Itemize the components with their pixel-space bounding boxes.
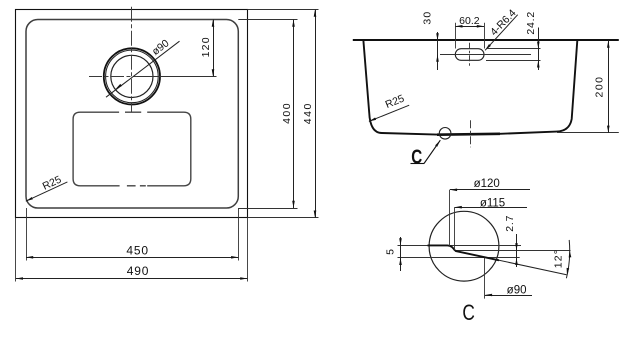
extension lines for 400 dimension	[238, 19, 297, 21]
lower depth reference line (detail)	[398, 257, 520, 259]
overflow slot vertical centerline	[469, 43, 471, 67]
dimension 490 line	[16, 278, 248, 280]
dimension 450 line	[26, 257, 238, 259]
svg-text:490: 490	[127, 264, 149, 278]
drain chamfer slant thick segment (detail)	[455, 251, 499, 260]
D120 edge line (detail)	[449, 190, 451, 247]
sink outer rim square 490x440 (plan view)	[16, 10, 248, 218]
svg-text:C: C	[411, 147, 422, 169]
dimension 200 line	[608, 41, 610, 133]
leader line for R25 corner radius (plan view)	[26, 182, 68, 201]
svg-text:2.7: 2.7	[504, 215, 516, 232]
detail C boundary circle	[429, 211, 499, 281]
extension lines for 440 dimension	[247, 9, 318, 11]
svg-text:120: 120	[200, 36, 212, 57]
svg-text:30: 30	[422, 11, 434, 25]
drain flange circle D120 (plan view)	[104, 48, 160, 104]
dimension 120 line	[213, 20, 215, 77]
dimension 30 line (rim to slot center)	[437, 32, 439, 70]
drain circle D115 (plan view)	[106, 50, 159, 103]
12 degree angle dimension arc	[566, 240, 569, 278]
horizontal centerline of drain (plan view)	[89, 76, 137, 78]
sink rim top line (section view)	[353, 39, 619, 41]
drain hole circle D90 (plan view)	[111, 55, 153, 97]
svg-text:200: 200	[593, 75, 605, 97]
horizontal 12deg reference line (detail)	[455, 250, 570, 252]
sink left wall and bottom (section view)	[363, 41, 437, 135]
leader line for detail C label	[424, 140, 440, 163]
drain chamfer slant line thin extension (detail)	[455, 251, 566, 275]
svg-text:440: 440	[302, 102, 314, 124]
dimension D90 line (detail)	[485, 295, 532, 297]
sink bowl inner rounded square 450x400 R25 (plan view)	[26, 20, 238, 209]
drain flange thick segment (section view)	[437, 133, 500, 136]
svg-text:C: C	[462, 300, 475, 325]
dimension 60.2 line	[455, 26, 484, 28]
extension line for 200 dimension bottom	[557, 132, 619, 134]
dimension 400 line	[293, 20, 295, 209]
svg-text:ø90: ø90	[507, 284, 527, 296]
svg-text:450: 450	[126, 243, 148, 257]
vertical centerline of drain (plan view)	[131, 7, 133, 113]
svg-text:ø115: ø115	[480, 197, 505, 209]
leader line for 4-R6.4	[485, 15, 518, 51]
dimension D115 line	[455, 207, 527, 209]
extension line from drain center to 120 dimension	[137, 76, 217, 78]
svg-text:24.2: 24.2	[525, 11, 537, 35]
svg-text:5: 5	[385, 249, 397, 255]
dimension 5 line	[400, 237, 402, 271]
dimension 24.2 line	[538, 28, 540, 71]
leader line for R25 (section view)	[369, 105, 409, 121]
top surface reference line (detail)	[398, 245, 522, 247]
overflow slot 60.2x24.2 (section view)	[455, 49, 484, 61]
dimension 440 line	[315, 10, 317, 218]
extension lines for 60.2 dimension	[455, 23, 457, 49]
dimension D120 line	[450, 189, 530, 191]
svg-text:12°: 12°	[553, 249, 565, 268]
leader line for D90 label	[106, 41, 180, 97]
extension lines for 450 dimension	[26, 208, 28, 261]
detail C marker circle (section view)	[439, 128, 451, 140]
overflow slot horizontal centerline / extension	[440, 54, 531, 56]
svg-text:60.2: 60.2	[459, 15, 480, 27]
svg-text:400: 400	[281, 102, 293, 124]
sheet top surface thick line (detail)	[428, 245, 456, 251]
D115 edge line (detail)	[454, 207, 456, 250]
D90 edge line (detail)	[484, 258, 486, 299]
svg-text:ø120: ø120	[474, 178, 500, 190]
extension lines for 24.2 dimension	[486, 48, 541, 50]
drain centerline (section view)	[470, 120, 472, 147]
sink base recess rounded rectangle (plan view)	[73, 112, 120, 186]
extension lines for 490 dimension	[15, 218, 17, 282]
sink bottom right and right wall (section view)	[500, 41, 577, 134]
dimension 2.7 line	[516, 234, 518, 267]
